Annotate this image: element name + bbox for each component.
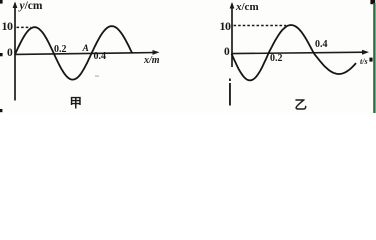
bottom-left mark [0, 109, 2, 112]
divider dot below right y-axis [229, 79, 231, 82]
left graph y-axis [14, 4, 16, 101]
left wave [15, 26, 132, 80]
left graph x-axis [15, 53, 157, 55]
right dashed 10 line [234, 25, 287, 27]
label 0 left [7, 47, 13, 59]
label jia [70, 92, 83, 111]
right graph x-axis [232, 52, 367, 53]
label 0.2 left [54, 44, 67, 55]
label t/s [360, 57, 368, 66]
label 0.4 right [315, 39, 328, 50]
label yi [295, 94, 308, 113]
top-right black mark [370, 0, 375, 4]
divider bar below right y-axis [229, 83, 231, 106]
left x-axis arrowhead [153, 50, 160, 55]
label y/cm [20, 0, 43, 12]
left dashed 10 line [17, 26, 32, 28]
label x/m [144, 55, 160, 66]
label 0.2 right [270, 53, 283, 64]
right graph y-axis [231, 4, 233, 67]
smudge under 0.4 left [95, 76, 99, 77]
green border line [373, 3, 375, 113]
label x/cm [236, 1, 259, 13]
label 10 left [2, 19, 13, 34]
right x-axis arrowhead [362, 50, 369, 55]
right-mid black dot [369, 58, 372, 62]
label 10 right [220, 19, 231, 34]
mid-left mark [0, 53, 3, 56]
left y-axis arrowhead [13, 2, 18, 9]
right y-axis arrowhead [230, 2, 235, 9]
right wave [232, 25, 357, 80]
label 0.4 left [94, 51, 107, 62]
label A left [83, 44, 89, 54]
top-left corner mark [0, 0, 3, 4]
label 0 right [224, 46, 230, 58]
